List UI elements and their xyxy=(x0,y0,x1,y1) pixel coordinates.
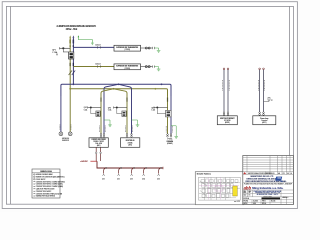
breaker QF2 xyxy=(84,106,101,111)
dc tap 4 xyxy=(142,167,146,180)
fuse F2 after suppressor 2 xyxy=(141,65,155,67)
branch0 terminal marks xyxy=(60,125,71,131)
svg-text:2x6mm2: 2x6mm2 xyxy=(95,64,101,66)
title block divider line xyxy=(243,182,294,184)
svg-text:(2TVSS): (2TVSS) xyxy=(125,68,131,70)
ground branch2 xyxy=(132,120,140,127)
suppressor branch 2 wire xyxy=(73,64,114,68)
svg-text:Ming Industria s.a. ltda.: Ming Industria s.a. ltda. xyxy=(252,187,283,190)
node L supply tap xyxy=(73,83,75,85)
branch0 wire N down xyxy=(69,89,71,132)
branch3 terminal labels xyxy=(166,126,172,133)
fuse F1 after suppressor 1 xyxy=(141,47,155,49)
ground branch3 xyxy=(171,126,178,139)
border frame inner right margin line xyxy=(289,6,291,204)
title block info rows xyxy=(243,190,294,205)
right pair A wires xyxy=(223,68,229,116)
svg-text:QF2: QF2 xyxy=(84,107,87,109)
title text ALIMENTACION xyxy=(57,24,97,31)
ground after suppressor 1 xyxy=(154,48,160,52)
border frame inner left margin line xyxy=(10,6,12,204)
psu transformer T2 xyxy=(117,109,126,117)
svg-text:ENCHUFE: ENCHUFE xyxy=(62,138,69,140)
psu output stubs xyxy=(95,147,101,161)
svg-text:08-20: 08-20 xyxy=(266,173,270,175)
svg-text:PROY.: PROY. xyxy=(262,201,267,203)
right pair A cable labels xyxy=(223,80,230,91)
lamp outlet X2 xyxy=(68,132,72,136)
router box R1 xyxy=(121,138,140,148)
node L tap right xyxy=(161,83,163,85)
svg-text:esc 1:10: esc 1:10 xyxy=(234,201,240,203)
breaker QF4 xyxy=(151,106,167,111)
legend box SIMBOLOGIA xyxy=(32,169,60,198)
revision entry row xyxy=(243,172,292,175)
dc tap 5 xyxy=(157,167,161,180)
svg-text:SWITCH ETHERNET: SWITCH ETHERNET xyxy=(220,118,235,120)
wire arch L to branch2 xyxy=(119,84,132,96)
svg-text:abb: abb xyxy=(244,186,252,191)
svg-text:QF4: QF4 xyxy=(151,108,154,110)
switch ethernet box SW1 xyxy=(217,116,237,125)
bus N (olive horizontal) xyxy=(70,89,167,96)
svg-text:2x6mm2: 2x6mm2 xyxy=(95,45,101,47)
inset drawing frame xyxy=(199,177,241,200)
power supply box PSU 24VDC xyxy=(89,138,108,148)
camera load label xyxy=(166,138,174,145)
right pair B wires xyxy=(259,68,265,116)
svg-text:CONDUCTOR 24VDC: CONDUCTOR 24VDC xyxy=(36,191,52,193)
svg-text:N-1234: N-1234 xyxy=(271,201,276,203)
dc tap 1 xyxy=(102,167,106,180)
border frame middle xyxy=(6,6,293,204)
svg-text:EF: EF xyxy=(287,173,289,175)
border frame outer xyxy=(2,2,297,209)
ground after suppressor 2 xyxy=(154,67,160,71)
title block small logo xyxy=(275,177,283,182)
inset drawing magenta accents xyxy=(199,178,239,200)
inset yellow highlight xyxy=(233,186,238,196)
svg-text:4X5: 4X5 xyxy=(157,179,160,181)
svg-text:8P 10/100: 8P 10/100 xyxy=(224,120,231,122)
branch2 breaker label xyxy=(108,107,111,111)
svg-text:4X3: 4X3 xyxy=(130,179,133,181)
title block project titles xyxy=(246,176,287,183)
title block bottom cells xyxy=(244,200,276,205)
svg-text:QF3: QF3 xyxy=(108,107,111,109)
svg-text:MINISTERIO DE OO. PP.: MINISTERIO DE OO. PP. xyxy=(251,176,275,178)
title block signature bar xyxy=(244,196,289,200)
wire arch L to branch1 xyxy=(104,84,119,96)
svg-text:Detalle Tablero: Detalle Tablero xyxy=(197,172,212,175)
svg-text:4X1: 4X1 xyxy=(102,179,105,181)
svg-text:ALIMENTACION DESDE EMPALME AER: ALIMENTACION DESDE EMPALME AEREO/SAT1 xyxy=(57,24,97,28)
svg-text:E-04: E-04 xyxy=(253,203,256,205)
branch1 wires xyxy=(100,96,104,137)
branch2 terminals xyxy=(126,134,132,138)
svg-text:220Vac - 50Hz: 220Vac - 50Hz xyxy=(66,29,78,31)
svg-text:SERVICIO: SERVICIO xyxy=(62,140,70,142)
right pair A terminals xyxy=(223,112,229,116)
inset detail box xyxy=(195,172,244,205)
title block frame xyxy=(243,156,294,205)
dc tap 3 xyxy=(130,167,134,180)
node N tap right xyxy=(155,88,157,90)
svg-text:4X4: 4X4 xyxy=(142,179,145,181)
branch1 terminals xyxy=(100,134,105,138)
svg-text:OK: OK xyxy=(249,192,251,194)
svg-text:+24VDC: +24VDC xyxy=(80,160,88,163)
branch0 load label xyxy=(62,138,70,142)
dc bus 24V xyxy=(97,161,163,169)
suppressor box TVSS1 xyxy=(114,45,141,51)
wire supply L (navy) xyxy=(73,35,75,84)
wire arch N to branch2 xyxy=(114,89,128,96)
svg-text:FUENTE DE PODER: FUENTE DE PODER xyxy=(91,139,106,141)
ps tap symbol xyxy=(264,98,273,102)
svg-text:CD: CD xyxy=(283,173,285,175)
inset bottom note xyxy=(234,201,240,203)
revision table xyxy=(243,156,294,175)
breaker QF3 xyxy=(114,106,128,108)
breaker QF1 xyxy=(52,47,70,54)
svg-text:10-20: 10-20 xyxy=(271,173,275,175)
suppressor box TVSS2 xyxy=(114,64,141,70)
branch0 wire L down xyxy=(60,96,62,132)
svg-text:(4G1): (4G1) xyxy=(97,145,101,147)
title block address lines xyxy=(244,190,282,198)
svg-text:(4PL1): (4PL1) xyxy=(262,122,267,124)
branch2 wires xyxy=(126,96,131,137)
svg-text:(4R1): (4R1) xyxy=(128,145,132,147)
branch3 terminals xyxy=(167,134,172,137)
svg-text:10-2020: 10-2020 xyxy=(253,201,258,203)
svg-text:CONDUCTOR H07V-K 2.5MM2 (NEGRO: CONDUCTOR H07V-K 2.5MM2 (NEGRO) xyxy=(36,181,65,183)
meter kWh U1 xyxy=(56,49,74,59)
wire supply PE (green) with ground xyxy=(78,35,94,45)
svg-text:(4SW1): (4SW1) xyxy=(225,122,230,124)
svg-text:V.1: V.1 xyxy=(249,195,251,197)
dc label +24VDC xyxy=(80,160,97,163)
node N supply tap xyxy=(69,88,71,90)
switch S1 (disconnect diagonals) xyxy=(69,70,76,75)
branch3 wires xyxy=(167,96,171,137)
psu transformer T3 xyxy=(157,109,171,117)
svg-text:SIMBOLOGIA: SIMBOLOGIA xyxy=(40,170,52,173)
svg-text:(1TVSS): (1TVSS) xyxy=(125,49,131,51)
wire arch N to branch1 xyxy=(101,89,114,96)
lamp outlet X1 xyxy=(59,132,63,136)
inset drawing content xyxy=(199,178,240,201)
node N split xyxy=(113,88,115,90)
power loop box PL1 xyxy=(253,116,276,125)
company logo abb xyxy=(244,186,284,191)
title block fine print xyxy=(244,183,292,186)
suppressor branch 1 wire xyxy=(73,45,114,49)
svg-text:4X2: 4X2 xyxy=(117,179,120,181)
branch1 terminal labels xyxy=(100,126,106,133)
ground branch1 xyxy=(104,120,112,127)
psu transformer T1 xyxy=(91,109,100,117)
dc tap 2 xyxy=(117,167,121,180)
right pair B cable labels xyxy=(258,80,264,91)
node L split xyxy=(118,83,120,85)
svg-text:PLUG 24VDC: PLUG 24VDC xyxy=(36,179,47,181)
bus L (navy horizontal) xyxy=(61,84,171,96)
branch2 terminal labels xyxy=(126,126,133,133)
svg-text:ps: ps xyxy=(271,99,273,101)
wire supply N (olive) xyxy=(69,35,71,88)
right pair B terminals xyxy=(259,112,265,116)
legend rows xyxy=(33,173,65,198)
